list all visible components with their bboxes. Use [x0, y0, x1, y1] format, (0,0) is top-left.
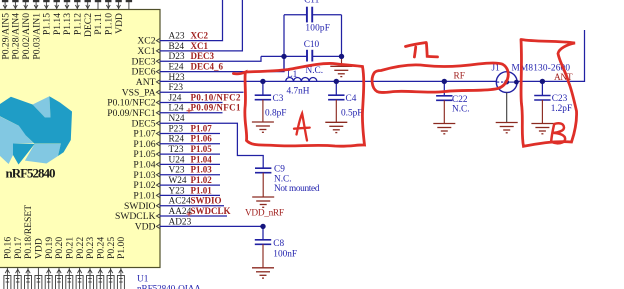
svg-text:C11: C11 — [304, 0, 320, 6]
wire P1.03 — [160, 174, 221, 176]
wire SWDCLK — [160, 215, 228, 217]
wire C11 left rail — [283, 15, 285, 72]
wire P1.06 — [160, 143, 221, 145]
node C10/C11 right junction — [339, 54, 344, 59]
svg-text:C3: C3 — [273, 94, 284, 104]
node C3 tap — [260, 79, 265, 84]
svg-text:100nF: 100nF — [273, 250, 297, 260]
svg-text:N.C.: N.C. — [452, 105, 470, 115]
wire P0.09/NFC1 — [160, 112, 223, 114]
ground (C22) — [443, 100, 445, 123]
svg-text:N.C.: N.C. — [274, 175, 292, 185]
wire VDD_nRF — [160, 226, 264, 239]
IC U1 nRF52840 chip body — [0, 10, 160, 268]
svg-text:VDD: VDD — [114, 13, 125, 34]
svg-text:0.5pF: 0.5pF — [341, 109, 362, 119]
wire C10 row — [261, 55, 307, 57]
wire XC2 — [160, 0, 223, 41]
wire P1.01 — [160, 194, 221, 196]
wire DEC4_6 — [160, 56, 285, 71]
wire C11 top — [284, 14, 307, 16]
red TL oval — [372, 63, 508, 93]
svg-text:P1.12: P1.12 — [73, 13, 84, 35]
svg-text:nRF52840-QIAA: nRF52840-QIAA — [137, 284, 201, 289]
ground (C9) — [262, 173, 264, 197]
wire SWDIO — [160, 205, 225, 207]
pin designators — [169, 32, 192, 228]
node ANT / C23 tap — [540, 79, 545, 84]
svg-text:1.2pF: 1.2pF — [551, 104, 572, 114]
ground under C10/C11 rail — [341, 59, 343, 66]
svg-text:DEC3: DEC3 — [191, 51, 215, 61]
svg-text:P0.09/NFC1: P0.09/NFC1 — [191, 103, 242, 113]
svg-text:0.8pF: 0.8pF — [265, 109, 286, 119]
ground (C8) — [262, 244, 264, 267]
right side pin stubs with arrows — [156, 38, 160, 228]
svg-text:DEC4_6: DEC4_6 — [191, 62, 224, 72]
wire DEC5 to C9 — [160, 123, 264, 168]
wire C11 right rail — [341, 15, 343, 59]
small red plus marks — [187, 108, 192, 216]
svg-text:VDD: VDD — [135, 222, 156, 233]
capacitor C11 — [307, 7, 312, 23]
svg-text:L1: L1 — [287, 70, 298, 80]
capacitor C22 — [443, 81, 445, 95]
svg-text:XC1: XC1 — [191, 41, 209, 51]
capacitor C9 — [255, 168, 271, 173]
capacitor C8 — [255, 240, 271, 245]
svg-text:SWDCLK: SWDCLK — [191, 206, 231, 216]
bottom pin stubs and port boxes — [4, 268, 125, 289]
red net labels — [191, 31, 242, 216]
top pin name labels — [0, 13, 125, 60]
node DEC4_6 junction — [281, 54, 286, 59]
svg-text:P1.00: P1.00 — [116, 237, 127, 259]
node VDD_nRF junction — [260, 224, 265, 229]
svg-text:P1.01: P1.01 — [191, 185, 213, 195]
svg-text:P1.02: P1.02 — [191, 175, 213, 185]
svg-text:P0.02/AIN0: P0.02/AIN0 — [21, 13, 32, 60]
capacitor C23 — [541, 81, 543, 95]
svg-text:P1.06: P1.06 — [191, 134, 213, 144]
wire ANT right — [517, 30, 585, 81]
wire XC1 — [160, 0, 243, 51]
capacitor C3 — [262, 81, 264, 95]
red letter B — [551, 123, 565, 143]
bottom pin name labels — [3, 205, 128, 259]
svg-text:C9: C9 — [274, 165, 285, 175]
connector J1 MM8130-2600 — [496, 72, 517, 93]
svg-text:P0.22: P0.22 — [75, 237, 86, 259]
svg-text:J1: J1 — [492, 64, 501, 74]
svg-text:P1.05: P1.05 — [191, 144, 213, 154]
svg-text:RF: RF — [454, 72, 465, 82]
capacitor C10 — [307, 50, 312, 62]
svg-text:C4: C4 — [346, 94, 357, 104]
svg-text:C23: C23 — [552, 94, 568, 104]
ground (C10/C11 rail) — [330, 66, 352, 76]
svg-text:P1.03: P1.03 — [191, 165, 213, 175]
svg-text:VDD_nRF: VDD_nRF — [245, 209, 284, 219]
ground (C4) — [335, 100, 337, 123]
svg-text:4.7nH: 4.7nH — [287, 87, 310, 97]
wire VSS_PA — [160, 91, 244, 93]
Nordic Semiconductor logo — [0, 96, 72, 164]
wire P1.04 — [160, 163, 221, 165]
svg-text:P0.18/RESET: P0.18/RESET — [23, 205, 34, 259]
red TL text — [406, 43, 438, 58]
node C4 tap — [334, 79, 339, 84]
svg-text:C22: C22 — [452, 95, 468, 105]
svg-text:nRF52840: nRF52840 — [6, 165, 56, 180]
top pin stubs — [3, 0, 129, 10]
ground (C3) — [262, 100, 264, 122]
wire P1.02 — [160, 184, 221, 186]
svg-text:P1.07: P1.07 — [191, 123, 213, 133]
svg-text:DEC3: DEC3 — [132, 56, 156, 67]
red annotation box A — [233, 63, 364, 146]
wire DEC3 — [160, 56, 262, 61]
red letter A — [294, 114, 310, 141]
wire P0.10/NFC2 — [160, 102, 223, 104]
svg-text:100pF: 100pF — [305, 23, 330, 33]
wire P1.05 — [160, 153, 221, 155]
svg-text:P0.10/NFC2: P0.10/NFC2 — [191, 92, 242, 102]
svg-text:C8: C8 — [273, 239, 284, 249]
svg-text:SWDIO: SWDIO — [191, 196, 222, 206]
svg-text:C10: C10 — [304, 40, 320, 50]
svg-text:P1.04: P1.04 — [191, 154, 213, 164]
ground (C23) — [541, 100, 543, 124]
inner pin names right column — [107, 36, 155, 233]
svg-text:Not mounted: Not mounted — [274, 184, 320, 194]
capacitor C4 — [335, 81, 337, 95]
wire P1.07 — [160, 133, 221, 135]
svg-text:U1: U1 — [137, 274, 149, 284]
inductor L1 — [286, 78, 317, 82]
svg-text:SWDCLK: SWDCLK — [115, 211, 156, 222]
svg-text:P0.09/NFC1: P0.09/NFC1 — [107, 108, 155, 119]
svg-text:XC2: XC2 — [191, 31, 209, 41]
ground (J1) — [496, 123, 518, 133]
wire ANT trunk — [160, 80, 497, 82]
red annotation box B — [521, 40, 577, 147]
svg-text:ANT: ANT — [554, 73, 573, 83]
svg-text:P1.04: P1.04 — [133, 160, 155, 171]
node RF / C22 tap — [442, 79, 447, 84]
svg-text:N.C.: N.C. — [306, 66, 324, 76]
